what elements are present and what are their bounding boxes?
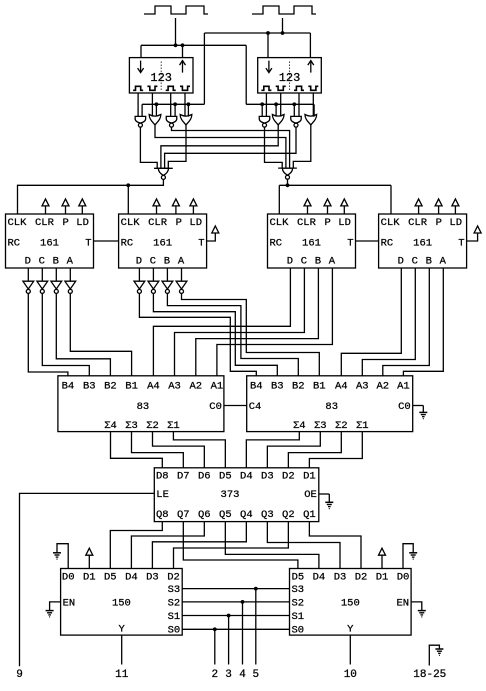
svg-text:D: D xyxy=(136,256,142,268)
svg-text:S1: S1 xyxy=(292,611,305,623)
svg-text:A2: A2 xyxy=(189,381,202,393)
svg-text:Q7: Q7 xyxy=(177,509,190,521)
svg-text:CLK: CLK xyxy=(8,217,28,229)
svg-text:D: D xyxy=(25,256,31,268)
svg-text:S0: S0 xyxy=(168,625,181,637)
svg-text:A4: A4 xyxy=(147,381,160,393)
svg-text:D: D xyxy=(398,256,404,268)
svg-text:4: 4 xyxy=(239,669,246,681)
svg-text:P: P xyxy=(436,217,442,229)
svg-text:A: A xyxy=(329,256,336,268)
svg-text:Q6: Q6 xyxy=(198,509,211,521)
svg-text:S1: S1 xyxy=(168,611,181,623)
svg-text:T: T xyxy=(198,237,204,249)
svg-text:Q2: Q2 xyxy=(282,509,295,521)
svg-text:10: 10 xyxy=(344,669,357,681)
svg-text:Σ4: Σ4 xyxy=(104,420,117,432)
svg-text:Σ1: Σ1 xyxy=(167,420,180,432)
svg-text:D0: D0 xyxy=(62,571,75,583)
svg-text:Σ2: Σ2 xyxy=(146,420,159,432)
svg-text:18-25: 18-25 xyxy=(413,669,446,681)
svg-text:A2: A2 xyxy=(376,381,389,393)
svg-text:Σ1: Σ1 xyxy=(356,420,369,432)
svg-text:S3: S3 xyxy=(168,584,181,596)
svg-text:D0: D0 xyxy=(397,571,410,583)
svg-text:D2: D2 xyxy=(355,571,368,583)
svg-text:A4: A4 xyxy=(335,381,348,393)
svg-text:B: B xyxy=(164,256,170,268)
svg-text:B4: B4 xyxy=(62,381,75,393)
svg-text:D2: D2 xyxy=(167,571,180,583)
svg-text:D6: D6 xyxy=(198,471,211,483)
svg-text:C0: C0 xyxy=(398,401,411,413)
svg-text:Q1: Q1 xyxy=(303,509,316,521)
svg-text:A: A xyxy=(67,256,74,268)
svg-text:A3: A3 xyxy=(168,381,181,393)
svg-text:EN: EN xyxy=(63,597,76,609)
svg-text:S0: S0 xyxy=(292,625,305,637)
svg-text:83: 83 xyxy=(137,401,150,413)
svg-text:Σ3: Σ3 xyxy=(125,420,138,432)
svg-text:CLR: CLR xyxy=(35,217,55,229)
svg-text:D8: D8 xyxy=(156,471,169,483)
svg-text:B: B xyxy=(53,256,59,268)
svg-text:OE: OE xyxy=(304,489,317,501)
svg-text:CLK: CLK xyxy=(121,217,141,229)
svg-text:Σ4: Σ4 xyxy=(293,420,306,432)
svg-text:RC: RC xyxy=(121,237,134,249)
svg-text:C: C xyxy=(412,256,418,268)
svg-text:Y: Y xyxy=(347,624,354,636)
svg-text:RC: RC xyxy=(381,237,394,249)
svg-text:Q8: Q8 xyxy=(156,509,169,521)
svg-text:D: D xyxy=(287,256,293,268)
svg-text:A: A xyxy=(178,256,185,268)
svg-text:B2: B2 xyxy=(104,381,117,393)
svg-text:T: T xyxy=(347,237,353,249)
svg-text:B: B xyxy=(315,256,321,268)
svg-text:D5: D5 xyxy=(104,571,117,583)
svg-text:B3: B3 xyxy=(83,381,96,393)
svg-text:11: 11 xyxy=(115,669,129,681)
svg-text:Q3: Q3 xyxy=(261,509,274,521)
svg-text:D5: D5 xyxy=(219,471,232,483)
svg-text:P: P xyxy=(176,217,182,229)
svg-text:B: B xyxy=(426,256,432,268)
svg-text:C: C xyxy=(301,256,307,268)
svg-text:9: 9 xyxy=(16,669,23,681)
svg-text:LD: LD xyxy=(76,217,89,229)
svg-text:D4: D4 xyxy=(240,471,253,483)
svg-text:Q5: Q5 xyxy=(219,509,232,521)
svg-text:LD: LD xyxy=(338,217,351,229)
svg-text:B1: B1 xyxy=(125,381,138,393)
svg-text:A: A xyxy=(440,256,447,268)
svg-text:161: 161 xyxy=(413,237,432,249)
svg-text:LE: LE xyxy=(156,489,169,501)
svg-text:150: 150 xyxy=(341,597,360,609)
svg-text:5: 5 xyxy=(252,669,259,681)
svg-text:RC: RC xyxy=(270,237,283,249)
svg-text:CLR: CLR xyxy=(148,217,168,229)
svg-text:2: 2 xyxy=(211,669,218,681)
svg-text:B2: B2 xyxy=(292,381,305,393)
svg-text:EN: EN xyxy=(396,597,409,609)
svg-text:150: 150 xyxy=(112,597,131,609)
svg-text:D3: D3 xyxy=(261,471,274,483)
svg-text:P: P xyxy=(325,217,331,229)
svg-text:161: 161 xyxy=(153,237,172,249)
svg-text:D2: D2 xyxy=(282,471,295,483)
svg-text:CLK: CLK xyxy=(270,217,290,229)
svg-text:D4: D4 xyxy=(125,571,138,583)
svg-text:CLR: CLR xyxy=(408,217,428,229)
svg-text:S2: S2 xyxy=(168,597,181,609)
svg-text:CLK: CLK xyxy=(381,217,401,229)
svg-text:D7: D7 xyxy=(177,471,190,483)
svg-text:Q4: Q4 xyxy=(240,509,253,521)
svg-text:S2: S2 xyxy=(292,597,305,609)
svg-text:T: T xyxy=(85,237,91,249)
svg-text:Y: Y xyxy=(119,624,126,636)
svg-text:D5: D5 xyxy=(292,571,305,583)
svg-text:P: P xyxy=(63,217,69,229)
svg-text:3: 3 xyxy=(225,669,232,681)
svg-text:D1: D1 xyxy=(376,571,389,583)
svg-text:RC: RC xyxy=(8,237,21,249)
svg-text:T: T xyxy=(458,237,464,249)
svg-text:D4: D4 xyxy=(313,571,326,583)
svg-text:A1: A1 xyxy=(211,381,224,393)
svg-text:A3: A3 xyxy=(356,381,369,393)
svg-text:D3: D3 xyxy=(146,571,159,583)
svg-text:LD: LD xyxy=(449,217,462,229)
svg-text:373: 373 xyxy=(221,489,240,501)
svg-text:D3: D3 xyxy=(334,571,347,583)
svg-text:A1: A1 xyxy=(397,381,410,393)
svg-text:C0: C0 xyxy=(209,401,222,413)
svg-text:C: C xyxy=(39,256,45,268)
svg-text:LD: LD xyxy=(189,217,202,229)
svg-text:S3: S3 xyxy=(292,584,305,596)
svg-text:B3: B3 xyxy=(271,381,284,393)
svg-text:Σ2: Σ2 xyxy=(335,420,348,432)
svg-text:C4: C4 xyxy=(249,401,262,413)
svg-text:C: C xyxy=(150,256,156,268)
svg-text:B4: B4 xyxy=(250,381,263,393)
svg-text:83: 83 xyxy=(325,401,338,413)
svg-text:161: 161 xyxy=(302,237,321,249)
svg-text:B1: B1 xyxy=(313,381,326,393)
svg-text:CLR: CLR xyxy=(297,217,317,229)
svg-text:D1: D1 xyxy=(83,571,96,583)
svg-text:D1: D1 xyxy=(303,471,316,483)
svg-text:Σ3: Σ3 xyxy=(314,420,327,432)
svg-text:161: 161 xyxy=(40,237,59,249)
